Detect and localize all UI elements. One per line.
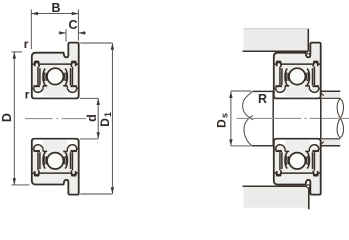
- svg-text:D: D: [0, 113, 14, 122]
- svg-text:R: R: [258, 92, 267, 106]
- dimension D1: [80, 43, 112, 194]
- housing corner relief circle bottom: [307, 185, 310, 188]
- shaft break arcs: [243, 91, 253, 145]
- bearing right (mounted) bottom section: [274, 139, 321, 195]
- centerline left: [25, 118, 86, 120]
- dimension C: [59, 29, 87, 42]
- svg-text:d: d: [85, 114, 99, 122]
- svg-text:1: 1: [103, 112, 113, 117]
- bearing section top: [32, 43, 79, 99]
- dimension Ds: [231, 91, 252, 146]
- housing bottom block: [243, 186, 309, 209]
- dimension d: [80, 98, 98, 139]
- right centerline: [237, 117, 349, 119]
- bearing section bottom (mirrored): [32, 139, 79, 195]
- svg-text:D: D: [215, 119, 229, 128]
- shaft left (Ds section) outline + shoulder face: [252, 91, 273, 145]
- svg-text:r: r: [24, 37, 29, 51]
- housing corner relief circle top: [307, 51, 310, 54]
- inner ring face line against collar (right drawing): [320, 98, 322, 138]
- svg-text:s: s: [219, 113, 229, 118]
- svg-text:C: C: [68, 18, 77, 32]
- housing top block: [243, 29, 309, 51]
- bearing right (mounted) top section: [274, 43, 321, 99]
- svg-text:r: r: [25, 88, 30, 102]
- dimension D: [12, 52, 30, 185]
- svg-text:D: D: [98, 118, 112, 127]
- shaft right (collar bands, gray): [321, 92, 340, 98]
- dimension B: [31, 10, 78, 50]
- svg-text:B: B: [51, 1, 60, 15]
- break figure-8: [337, 99, 343, 119]
